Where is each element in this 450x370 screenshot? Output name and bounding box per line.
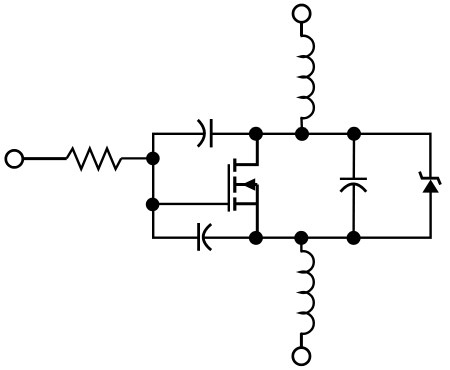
wire capacitor C3 to node H	[352, 185, 355, 238]
wire inductor L2 to terminal T3	[300, 333, 303, 348]
resistor R1	[67, 149, 122, 170]
terminal T2 (top)	[293, 5, 310, 22]
inductor L2 (bottom)	[300, 251, 313, 334]
MOSFET Q1 channel segment (body)	[233, 177, 236, 193]
capacitor C3 straight plate (right)	[340, 178, 367, 180]
wire node E to capacitor C3	[353, 134, 356, 178]
capacitor C2 straight plate (bottom)	[197, 223, 200, 251]
node F (source at bottom rail)	[249, 231, 263, 245]
wire left vertical branch with top-rail and bottom-rail stubs	[153, 134, 204, 238]
inductor L1 (top)	[300, 36, 313, 118]
wire node B to gate of Q1	[153, 203, 229, 205]
MOSFET Q1 source connection	[235, 202, 257, 205]
MOSFET Q1 gate bar	[228, 164, 230, 211]
node B (gate junction)	[146, 198, 160, 212]
MOSFET Q1 channel segment (source)	[233, 197, 236, 210]
wire C1 to top rail right section	[211, 134, 430, 179]
wire terminal T1 to resistor R1	[24, 157, 67, 160]
capacitor C2 curved plate (bottom)	[203, 224, 211, 250]
terminal T1 (left input)	[6, 150, 23, 167]
wire C2 to bottom rail right section	[205, 192, 431, 238]
wire Q1 source vertical to bottom rail	[256, 185, 259, 238]
capacitor C1 straight plate (top)	[210, 119, 213, 147]
node A (resistor junction)	[146, 152, 160, 166]
MOSFET Q1 channel segment (drain)	[233, 159, 236, 172]
wire inductor L1 to node D	[300, 118, 303, 134]
wire terminal T2 to inductor L1	[300, 22, 303, 36]
MOSFET Q1 body arrow	[242, 178, 255, 190]
terminal T3 (bottom)	[293, 348, 310, 365]
node C (drain at top rail)	[249, 127, 263, 141]
node E (top of C3)	[347, 127, 361, 141]
node G (bottom rail, L2)	[294, 231, 308, 245]
capacitor C3 curved plate (right)	[341, 184, 367, 192]
MOSFET Q1 drain connection	[235, 134, 257, 165]
diode D1 anode triangle	[422, 180, 439, 193]
diode D1 cathode bar (zener)	[420, 172, 441, 185]
MOSFET Q1 body connection	[236, 183, 257, 186]
capacitor C1 curved plate (top)	[198, 120, 205, 147]
node H (bottom of C3)	[347, 231, 361, 245]
wire resistor R1 to node A	[121, 157, 150, 159]
node D (top of L1 rail)	[295, 127, 309, 141]
wire node G to inductor L2	[300, 238, 303, 252]
